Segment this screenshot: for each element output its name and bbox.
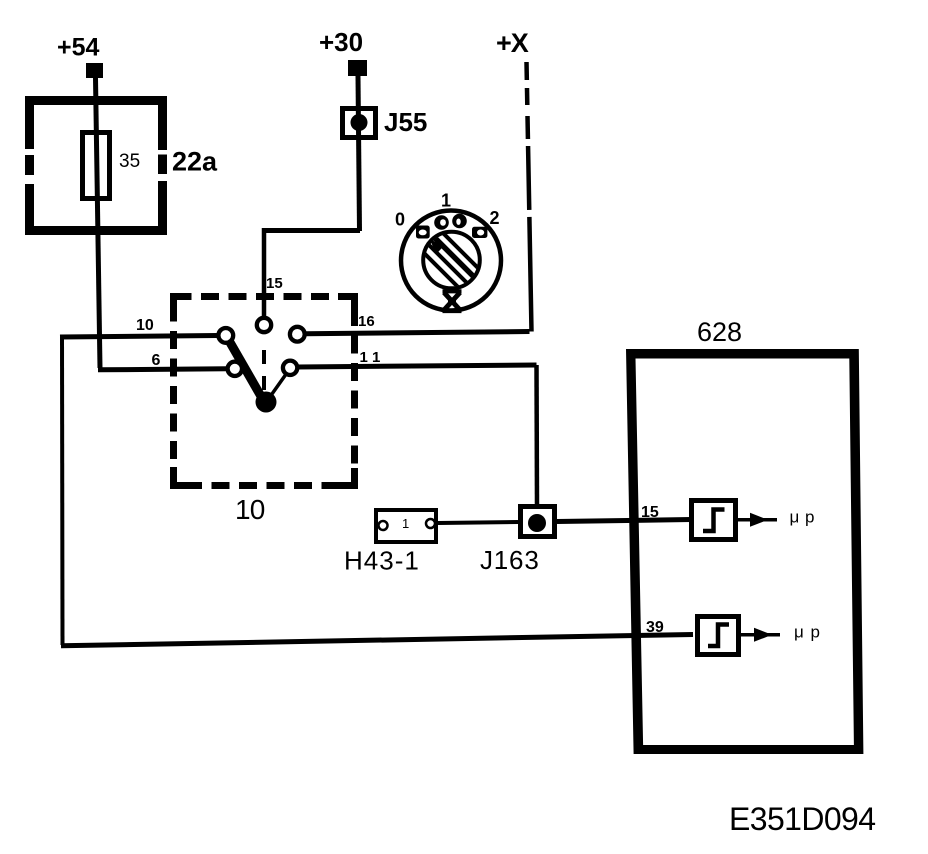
svg-text:J163: J163 (480, 545, 540, 575)
svg-text:16: 16 (358, 313, 375, 330)
svg-text:22a: 22a (172, 147, 218, 177)
svg-text:H43-1: H43-1 (344, 546, 420, 576)
svg-text:μ: μ (790, 508, 800, 527)
svg-text:+X: +X (496, 28, 529, 58)
svg-text:15: 15 (266, 275, 283, 292)
svg-text:6: 6 (152, 352, 161, 369)
svg-text:1: 1 (402, 516, 409, 531)
svg-text:1 1: 1 1 (360, 349, 381, 366)
svg-text:E351D094: E351D094 (729, 801, 875, 837)
svg-text:15: 15 (641, 504, 659, 521)
svg-text:μ: μ (794, 623, 804, 642)
svg-text:2: 2 (490, 208, 500, 228)
svg-text:+54: +54 (57, 34, 100, 62)
svg-text:p: p (805, 508, 814, 527)
svg-text:10: 10 (235, 494, 265, 525)
svg-text:0: 0 (395, 210, 405, 230)
svg-text:1: 1 (441, 191, 451, 211)
svg-text:p: p (811, 623, 820, 642)
svg-text:10: 10 (136, 317, 154, 334)
svg-text:628: 628 (697, 317, 742, 347)
svg-text:39: 39 (646, 619, 664, 636)
svg-text:35: 35 (119, 151, 140, 172)
svg-text:+30: +30 (319, 27, 363, 57)
svg-text:J55: J55 (384, 107, 427, 137)
